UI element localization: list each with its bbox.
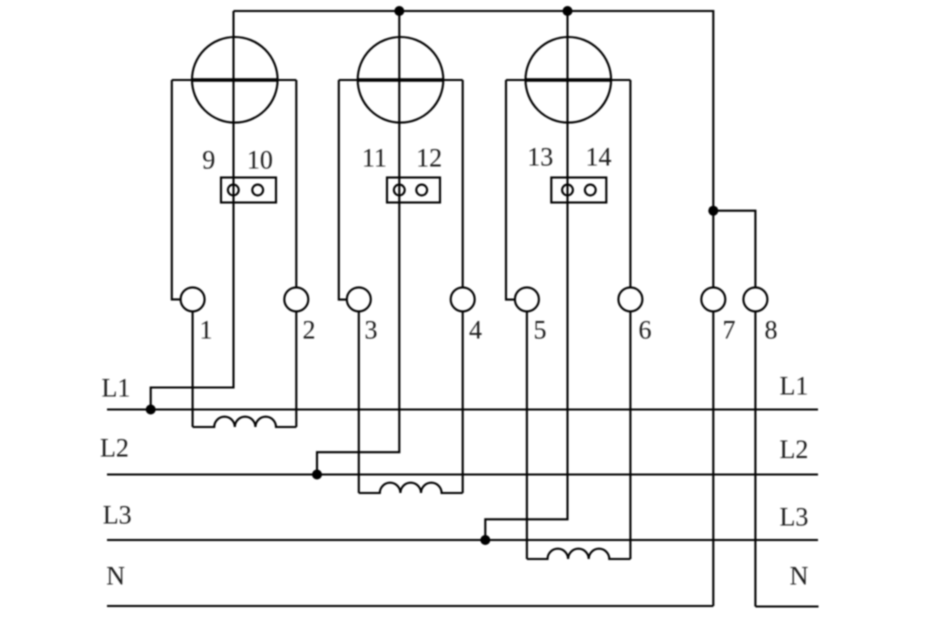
junction dot terminal 7/8 branch	[708, 206, 718, 216]
terminal 8	[743, 287, 767, 311]
terminal 7	[701, 287, 725, 311]
pin 13	[562, 185, 573, 196]
svg-text:L2: L2	[779, 435, 808, 464]
phase line L2	[107, 473, 818, 475]
wire CT2 crossbar horizontal	[339, 79, 463, 81]
phase line L1	[107, 408, 818, 410]
terminal 4	[451, 287, 475, 311]
svg-text:9: 9	[202, 146, 215, 175]
svg-text:12: 12	[416, 144, 442, 173]
current transformer CT1 primary bar	[192, 78, 277, 81]
junction dot L1 tap	[146, 405, 156, 415]
wire CT2 secondary right to terminal 4	[462, 80, 464, 287]
svg-text:11: 11	[362, 144, 387, 173]
current transformer CT2 primary vertical wire and voltage tap to L2	[317, 11, 399, 475]
terminal 1	[181, 287, 205, 311]
svg-text:8: 8	[765, 316, 778, 345]
current transformer CT3 circle	[526, 37, 612, 123]
svg-text:2: 2	[303, 316, 316, 345]
wire terminal 6 down to current coil L3	[629, 311, 631, 559]
wire CT3 secondary right to terminal 6	[629, 80, 631, 287]
svg-text:13: 13	[527, 143, 553, 172]
svg-text:5: 5	[534, 316, 547, 345]
terminal block CT2 (pins 11,12)	[387, 178, 440, 203]
wire terminal 5 down to current coil L3	[526, 311, 528, 559]
wire terminal 4 down to current coil L2	[462, 311, 464, 493]
pin 9	[228, 185, 239, 196]
wire terminal 1 down to current coil L1	[192, 311, 194, 427]
wire CT1 crossbar horizontal	[172, 79, 296, 81]
junction dot bus-CT2	[394, 6, 404, 16]
svg-text:N: N	[106, 562, 125, 591]
neutral line N right stub	[755, 605, 818, 607]
terminal 6	[618, 287, 642, 311]
svg-text:L2: L2	[100, 434, 129, 463]
neutral line N left segment	[107, 605, 713, 607]
pin 11	[394, 185, 405, 196]
terminal 5	[515, 287, 539, 311]
svg-text:L1: L1	[101, 374, 130, 403]
wire terminal 2 down to current coil L1	[295, 311, 297, 427]
terminal 3	[347, 287, 371, 311]
current transformer CT3 primary vertical wire and voltage tap to L3	[485, 11, 567, 540]
wire terminal 7 down to neutral	[712, 311, 714, 606]
current coil L1	[193, 417, 297, 427]
svg-text:4: 4	[469, 316, 482, 345]
junction dot bus-CT3	[563, 6, 573, 16]
terminal block CT1 (pins 9,10)	[221, 178, 276, 203]
current transformer CT1 circle	[192, 37, 278, 123]
current transformer CT3 primary bar	[526, 78, 611, 81]
junction dot L3 tap	[480, 535, 490, 545]
svg-text:6: 6	[639, 316, 652, 345]
pin 14	[585, 185, 596, 196]
terminal 2	[284, 287, 308, 311]
phase line L3	[107, 539, 818, 541]
wire CT3 crossbar horizontal	[506, 79, 630, 81]
wire branch to terminal 8	[713, 211, 755, 288]
terminal block CT3 (pins 13,14)	[551, 178, 606, 203]
svg-text:N: N	[790, 562, 809, 591]
current transformer CT1 primary vertical wire and voltage tap to L1	[151, 11, 234, 410]
junction dot L2 tap	[312, 470, 322, 480]
pin 10	[252, 185, 263, 196]
svg-text:L3: L3	[779, 503, 808, 532]
svg-text:10: 10	[247, 146, 273, 175]
wire CT1 secondary right to terminal 2	[295, 80, 297, 287]
current transformer CT2 primary bar	[358, 78, 443, 81]
svg-text:L3: L3	[103, 501, 132, 530]
svg-text:1: 1	[200, 316, 213, 345]
current transformer CT2 circle	[358, 37, 444, 123]
wire terminal 3 down to current coil L2	[358, 311, 360, 493]
svg-text:14: 14	[586, 143, 612, 172]
current coil L2	[359, 483, 463, 493]
wire top bus from CT1 to terminal 7 drop	[234, 11, 714, 287]
svg-text:L1: L1	[779, 372, 808, 401]
wire terminal 8 down to neutral stub	[754, 311, 756, 606]
wire CT3 secondary left to terminal 5	[506, 80, 515, 300]
svg-text:3: 3	[365, 316, 378, 345]
svg-text:7: 7	[723, 316, 736, 345]
wire CT1 secondary left to terminal 1	[172, 80, 181, 299]
wire CT2 secondary left to terminal 3	[339, 80, 347, 300]
current coil L3	[527, 549, 631, 559]
pin 12	[416, 185, 427, 196]
